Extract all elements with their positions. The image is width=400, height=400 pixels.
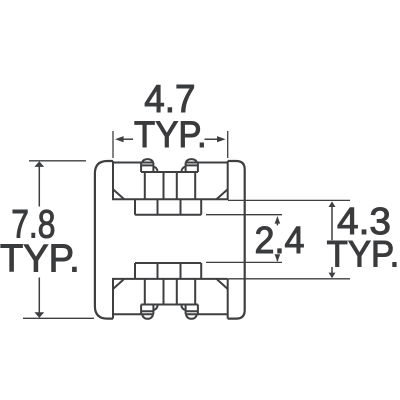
ext line 4.7 right	[227, 131, 229, 158]
bottom flange outline	[113, 279, 228, 319]
dim 2.4 down arrow	[276, 258, 278, 261]
dim 2.4 up arrow	[276, 219, 278, 225]
dim 4.3 up arrow	[331, 205, 333, 241]
top flange corner diagonal right	[217, 189, 228, 199]
ext line 7.8 bottom	[23, 317, 94, 319]
bottom wire dome left	[142, 314, 153, 319]
bottom terminal cap left	[141, 305, 153, 315]
top wire dome left	[142, 159, 153, 162]
top flange top edge segments	[113, 162, 228, 164]
bottom wire quarter-arc left	[153, 305, 157, 310]
top pad row	[135, 199, 201, 214]
bottom terminal posts	[145, 279, 195, 305]
ext line 4.3 top	[228, 199, 350, 201]
top wire dome right	[186, 159, 197, 162]
dim 7.8 up arrow	[38, 164, 40, 207]
component body outline left half	[95, 161, 245, 319]
top terminal cap right	[186, 163, 198, 173]
svg-text:TYP.: TYP.	[327, 233, 400, 275]
top terminal posts	[145, 172, 195, 199]
ext line 2.4 bottom	[206, 261, 282, 263]
bottom wire quarter-arc right	[181, 305, 185, 310]
svg-text:TYP.: TYP.	[0, 237, 80, 281]
bottom flange corner diagonal left	[113, 279, 124, 289]
svg-text:TYP.: TYP.	[134, 113, 207, 155]
top flange outline	[113, 161, 228, 199]
top terminal shelf line	[141, 171, 198, 173]
top terminal cap left	[141, 163, 153, 173]
dim 4.7 right arrow	[205, 138, 223, 140]
dim 4.7 left arrow	[118, 138, 133, 140]
dim 4.3 down arrow	[331, 267, 333, 275]
ext line 7.8 top	[29, 160, 86, 162]
bottom terminal shelf line	[141, 304, 198, 306]
top wire quarter-arc right	[181, 167, 185, 172]
ext line 4.7 left	[112, 131, 114, 158]
bottom wire dome right	[186, 314, 197, 319]
svg-text:2.4: 2.4	[255, 219, 305, 262]
dim 7.8 down arrow	[38, 278, 40, 316]
top wire quarter-arc left	[153, 167, 157, 172]
ext line 4.3 bottom	[228, 278, 350, 280]
bottom flange corner diagonal right	[217, 279, 228, 289]
dimension lines and arrowheads	[34, 136, 335, 318]
bottom flange bottom edge segments	[113, 313, 228, 315]
bottom pad row	[135, 263, 201, 279]
bottom terminal cap right	[186, 305, 198, 315]
component body outline right half	[228, 161, 245, 319]
ext line 2.4 top	[206, 214, 282, 216]
top flange corner diagonal left	[113, 189, 124, 199]
dimension extension lines	[23, 131, 350, 318]
